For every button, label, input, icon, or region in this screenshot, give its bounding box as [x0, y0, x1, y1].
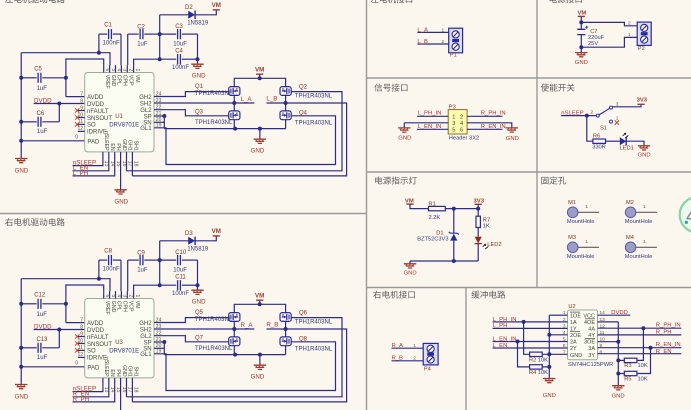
- svg-text:2: 2: [591, 110, 594, 116]
- transistor Q5 TPH1R403NL: [229, 313, 240, 322]
- net label L_A wire to P1 pin1: [417, 31, 448, 33]
- svg-text:C12: C12: [34, 292, 46, 298]
- section divider horizontal y=172: [367, 171, 691, 173]
- transistor Q1 TPH1R403NL: [229, 87, 240, 96]
- resistor R2 10K: [530, 352, 543, 356]
- ground left: [15, 159, 27, 163]
- ground power interface: [575, 53, 587, 57]
- svg-text:C11: C11: [175, 275, 186, 281]
- section divider horizontal y=213.5 (left column): [0, 213, 367, 215]
- wire U2 pin1 1OE to gnd rail: [560, 314, 568, 316]
- svg-text:MountHole: MountHole: [625, 254, 653, 260]
- wire gnd rail to R3: [618, 359, 624, 361]
- svg-text:DVDD: DVDD: [87, 102, 105, 108]
- diode D3 1N5819: [159, 241, 161, 285]
- svg-text:2A: 2A: [570, 340, 577, 346]
- wire R7 column: [477, 209, 479, 217]
- svg-text:PAD: PAD: [87, 366, 100, 372]
- wire switch pin3 to 3V3: [613, 104, 642, 107]
- svg-text:SNSOUT: SNSOUT: [87, 342, 112, 348]
- svg-text:TPH1R403NL: TPH1R403NL: [295, 319, 333, 325]
- svg-text:3OE: 3OE: [584, 340, 595, 346]
- svg-text:CPH: CPH: [122, 301, 128, 312]
- zener diode D1 BZT52C3V3: [449, 232, 459, 235]
- svg-text:4: 4: [116, 69, 122, 72]
- wire R4 to gnd rail: [542, 366, 549, 368]
- chip bottom pins nSLEEP EN PH GND GH1 SH1: [102, 378, 104, 386]
- wire top gnd rail to pin5: [21, 279, 110, 292]
- wire R7 to LED2: [477, 228, 479, 237]
- no-connect pins nFAULT SNSOUT SO: [78, 336, 85, 338]
- svg-text:GND: GND: [570, 353, 582, 359]
- svg-text:M1: M1: [568, 200, 576, 206]
- svg-text:GND: GND: [110, 75, 116, 87]
- svg-text:R_EN_IN: R_EN_IN: [481, 124, 506, 130]
- svg-text:GND: GND: [121, 139, 127, 151]
- wire LED1 to ground: [626, 141, 644, 146]
- LED LED2 red: [475, 237, 482, 244]
- svg-text:1uF: 1uF: [37, 355, 48, 361]
- svg-text:1: 1: [442, 27, 445, 33]
- wire VM to P2 pin2: [581, 22, 637, 25]
- svg-text:Q8: Q8: [299, 336, 308, 342]
- chip top pins VREF GND CPL CPH VCP VM: [103, 65, 105, 72]
- net label nSLEEP wire (enable switch): [561, 115, 596, 117]
- svg-text:Q2: Q2: [299, 84, 308, 90]
- diode D2 1N5819: [159, 15, 161, 59]
- svg-text:GL1: GL1: [140, 126, 152, 132]
- svg-text:MountHole: MountHole: [567, 219, 595, 225]
- svg-text:7: 7: [80, 91, 83, 97]
- ground U2 left: [543, 379, 555, 383]
- svg-text:R7: R7: [483, 217, 490, 223]
- svg-text:SH1: SH1: [133, 141, 139, 151]
- svg-text:Q6: Q6: [299, 310, 308, 316]
- svg-text:330R: 330R: [592, 145, 606, 151]
- svg-text:R5: R5: [624, 376, 631, 382]
- net label L_EN wire to U2 pin6: [493, 347, 568, 349]
- svg-text:DVDD: DVDD: [34, 98, 52, 105]
- svg-text:R_PH_IN: R_PH_IN: [481, 111, 506, 117]
- net label L_PH_IN wire to P3 pin1: [417, 115, 448, 117]
- svg-text:1uF: 1uF: [37, 312, 48, 318]
- svg-text:1: 1: [134, 69, 140, 72]
- svg-text:R4: R4: [529, 370, 536, 376]
- svg-text:SNSOUT: SNSOUT: [87, 116, 112, 122]
- no-connect switch pin1: [615, 120, 619, 124]
- wire GL1 to Q4 gate: [154, 116, 336, 165]
- svg-text:S1: S1: [600, 125, 607, 131]
- op-amp driver chip U1 DRV8701E body: [85, 73, 154, 152]
- svg-text:P3: P3: [449, 104, 456, 110]
- svg-text:DRV8701E: DRV8701E: [109, 349, 139, 355]
- svg-text:4: 4: [686, 206, 691, 228]
- svg-text:D3: D3: [185, 231, 193, 237]
- wire Q2-Q4 column: [285, 321, 287, 337]
- svg-text:nSLEEP: nSLEEP: [561, 111, 583, 117]
- svg-text:R_B: R_B: [266, 322, 278, 329]
- svg-text:U2: U2: [568, 304, 575, 310]
- svg-text:SO: SO: [87, 349, 96, 355]
- wire R1 to node: [445, 208, 478, 210]
- ground H-bridge: [259, 355, 261, 366]
- svg-text:DRV8701E: DRV8701E: [109, 123, 139, 129]
- svg-text:2: 2: [128, 69, 134, 72]
- wire H-bridge top rail: [234, 304, 285, 312]
- svg-text:10K: 10K: [538, 370, 548, 376]
- title enable switch: [541, 84, 549, 92]
- svg-text:nFAULT: nFAULT: [87, 109, 109, 115]
- svg-text:C13: C13: [37, 337, 49, 343]
- svg-text:TPH1R403NL: TPH1R403NL: [195, 91, 233, 97]
- net label L_PH_IN wire to U2 pin2: [493, 321, 568, 323]
- net label L_PH wire to U2 pin3: [493, 327, 568, 329]
- transistor Q8 TPH1R403NL: [280, 337, 291, 346]
- svg-text:U3: U3: [115, 340, 123, 346]
- svg-text:VM: VM: [212, 2, 221, 9]
- buffer chip U2 SN74HC125PWR body: [568, 310, 598, 360]
- connector P2 body: [637, 22, 651, 45]
- svg-text:TPH1R403NL: TPH1R403NL: [295, 120, 333, 126]
- svg-text:GND: GND: [15, 394, 29, 401]
- power port 3V3 (switch): [637, 103, 644, 105]
- svg-text:GND: GND: [251, 373, 265, 380]
- svg-text:4A: 4A: [588, 327, 595, 333]
- chip top pins VREF GND CPL CPH VCP VM: [103, 291, 105, 298]
- svg-text:U1: U1: [115, 114, 123, 120]
- svg-text:3: 3: [452, 121, 455, 127]
- svg-text:13: 13: [103, 161, 109, 167]
- svg-text:5: 5: [452, 128, 455, 134]
- wire GH2 to Q1 gate: [154, 92, 229, 97]
- svg-text:GND: GND: [612, 394, 625, 400]
- svg-text:GL2: GL2: [140, 334, 152, 340]
- mounting hole M3: [567, 242, 578, 253]
- svg-text:1: 1: [643, 204, 646, 210]
- svg-text:M3: M3: [568, 235, 576, 241]
- svg-text:4: 4: [116, 295, 122, 298]
- wire AVDD/VREF link: [66, 285, 104, 323]
- svg-text:1: 1: [134, 295, 140, 298]
- svg-text:6: 6: [104, 69, 110, 72]
- svg-text:VM: VM: [134, 75, 140, 83]
- svg-text:4: 4: [460, 121, 463, 127]
- svg-text:P1: P1: [450, 53, 457, 59]
- svg-text:GND: GND: [404, 271, 417, 277]
- capacitor C1: [98, 34, 100, 53]
- resistor R6 330R: [593, 139, 606, 143]
- wire left GND rail (U1 section): [20, 53, 22, 159]
- wire SH1 / L_B loop: [131, 159, 133, 176]
- svg-text:1: 1: [585, 239, 588, 245]
- svg-text:6: 6: [460, 128, 463, 134]
- node R_A: [232, 327, 236, 331]
- svg-text:GND: GND: [398, 135, 411, 141]
- svg-text:1A: 1A: [570, 320, 577, 326]
- wire Q1-Q3 column: [233, 95, 235, 111]
- svg-text:3Y: 3Y: [588, 353, 595, 359]
- transistor Q7 TPH1R403NL: [229, 337, 240, 346]
- wire U2 pin4 2OE to gnd rail: [549, 334, 567, 336]
- svg-text:C10: C10: [175, 250, 187, 256]
- svg-text:VM: VM: [255, 67, 264, 74]
- wire SP/SN sense: [154, 121, 164, 123]
- wire U2 pin10 3OE to right gnd rail: [598, 341, 619, 343]
- svg-text:10K: 10K: [638, 376, 648, 382]
- svg-text:MountHole: MountHole: [567, 254, 595, 260]
- svg-text:P2: P2: [638, 46, 645, 52]
- svg-text:SP: SP: [144, 114, 152, 120]
- ground enable switch: [638, 146, 650, 150]
- wire R3 to R_PH_IN branch: [637, 328, 644, 360]
- svg-text:GH2: GH2: [139, 321, 152, 327]
- capacitor C11: [134, 285, 177, 291]
- svg-text:GH2: GH2: [139, 95, 152, 101]
- svg-text:SO: SO: [87, 123, 96, 129]
- net label R_EN_IN wire from P3 pin6: [467, 128, 502, 130]
- svg-text:2.2K: 2.2K: [429, 215, 441, 221]
- svg-text:Q1: Q1: [195, 84, 204, 90]
- chip bottom pins nSLEEP EN PH GND GH1 SH1: [102, 152, 104, 160]
- capacitor C8: [98, 260, 100, 279]
- title buffer circuit: [471, 291, 479, 299]
- svg-text:Q7: Q7: [195, 335, 204, 341]
- svg-text:R_EN: R_EN: [656, 349, 672, 355]
- svg-text:L_PH: L_PH: [493, 323, 508, 329]
- wire D1 to bottom rail: [453, 241, 455, 261]
- svg-text:1: 1: [643, 239, 646, 245]
- overlay badge circle with 4: [680, 197, 691, 233]
- title left motor interface (clipped at top): [371, 0, 379, 3]
- capacitor C7 220uF 25V polarized: [577, 29, 585, 34]
- node L_B: [284, 101, 288, 105]
- svg-text:R6: R6: [593, 133, 600, 139]
- svg-text:8: 8: [80, 324, 83, 330]
- capacitor C9: [128, 259, 139, 261]
- svg-text:2: 2: [628, 20, 631, 26]
- power port VM (diode): [213, 235, 220, 237]
- title power indicator: [375, 176, 382, 184]
- svg-text:GL2: GL2: [140, 108, 152, 114]
- svg-text:SH2: SH2: [140, 327, 152, 333]
- svg-text:R_EN_IN: R_EN_IN: [656, 342, 681, 348]
- svg-text:VCP: VCP: [128, 301, 134, 312]
- svg-text:MountHole: MountHole: [625, 219, 653, 225]
- svg-text:R_PH: R_PH: [656, 330, 672, 336]
- wire DVDD branch to C6: [58, 330, 60, 348]
- wire L_PH_IN branch to R2: [524, 322, 530, 354]
- mounting hole M2: [625, 207, 636, 218]
- svg-text:VCP: VCP: [128, 75, 134, 86]
- ground H-bridge: [259, 129, 261, 140]
- net label L_EN + wire: [73, 159, 109, 170]
- title right motor drive circuit: [5, 218, 13, 226]
- svg-text:EN: EN: [109, 369, 115, 376]
- mounting hole M1: [567, 207, 578, 218]
- resistor R4 10K: [530, 365, 543, 369]
- wire bridge bottom rail: [164, 354, 285, 356]
- net label DVDD + wire: [34, 329, 85, 331]
- svg-text:CPL: CPL: [116, 75, 122, 85]
- switch S1 SPDT: [596, 114, 599, 117]
- svg-text:10uF: 10uF: [173, 42, 187, 48]
- svg-text:7: 7: [80, 317, 83, 323]
- wire GL1 to Q4 gate: [154, 342, 336, 391]
- svg-text:AVDD: AVDD: [87, 321, 104, 327]
- net label R_EN_IN wire from U2 pin9: [598, 347, 682, 349]
- svg-text:M2: M2: [626, 200, 634, 206]
- svg-text:DVDD: DVDD: [611, 310, 628, 316]
- section divider horizontal y=287.5: [367, 287, 691, 289]
- svg-text:GND: GND: [192, 299, 206, 306]
- section divider vertical x=366.5: [366, 0, 368, 410]
- svg-text:L_PH_IN: L_PH_IN: [418, 111, 442, 117]
- svg-text:5: 5: [110, 295, 116, 298]
- svg-text:VM: VM: [212, 228, 221, 235]
- svg-text:2: 2: [413, 355, 416, 361]
- power port 3V3 (indicator): [475, 203, 482, 205]
- svg-text:PH: PH: [115, 369, 121, 376]
- wire SH2 / L_A: [154, 328, 254, 330]
- svg-text:C5: C5: [34, 66, 42, 72]
- svg-text:TPH1R403NL: TPH1R403NL: [195, 346, 233, 352]
- svg-text:100nF: 100nF: [172, 291, 189, 297]
- svg-text:PAD: PAD: [87, 140, 100, 146]
- svg-text:R_PH_IN: R_PH_IN: [656, 323, 681, 329]
- capacitor C10: [157, 259, 176, 261]
- svg-text:2: 2: [128, 295, 134, 298]
- ground chip GND pin: [120, 385, 122, 410]
- section divider horizontal y=78: [367, 77, 691, 79]
- svg-text:C8: C8: [104, 249, 112, 255]
- wire AVDD row: [66, 322, 85, 324]
- no-connect pins nFAULT SNSOUT SO: [78, 110, 85, 112]
- svg-text:18: 18: [133, 387, 139, 393]
- svg-text:13: 13: [103, 387, 109, 393]
- title mounting holes: [541, 177, 548, 185]
- capacitor C3: [157, 33, 176, 35]
- wire bridge bottom rail: [164, 128, 285, 130]
- svg-text:10uF: 10uF: [173, 268, 187, 274]
- svg-text:2: 2: [460, 115, 463, 121]
- svg-text:GH1: GH1: [127, 140, 133, 151]
- ground U2 right: [612, 386, 624, 390]
- capacitor C13: [21, 347, 37, 349]
- net label nSLEEP + wire: [73, 159, 103, 165]
- svg-text:DVDD: DVDD: [87, 328, 105, 334]
- svg-text:1N5819: 1N5819: [187, 247, 209, 253]
- wire SH2 / L_A: [154, 102, 254, 104]
- transistor Q6 TPH1R403NL: [280, 313, 291, 322]
- svg-text:L_PH: L_PH: [73, 170, 88, 177]
- svg-text:L_B: L_B: [266, 96, 277, 103]
- svg-text:CPL: CPL: [116, 301, 122, 311]
- net label R_A wire to P4 pin1: [392, 347, 424, 349]
- wire nSLEEP branch to R6: [587, 116, 593, 142]
- net label R_PH_IN wire from U2 pin12: [598, 327, 682, 329]
- wire R5 to R_EN_IN branch: [637, 348, 651, 374]
- wire indicator bottom rail: [410, 260, 478, 262]
- svg-text:Q3: Q3: [195, 109, 204, 115]
- svg-text:nSLEEP: nSLEEP: [103, 131, 109, 151]
- wire AVDD row: [66, 96, 85, 98]
- svg-text:TPH1R403NL: TPH1R403NL: [195, 120, 233, 126]
- svg-text:TPH1R403NL: TPH1R403NL: [295, 346, 333, 352]
- wire Q2-Q4 column: [285, 95, 287, 111]
- svg-text:VREF: VREF: [104, 301, 110, 315]
- net label R_EN + wire: [73, 385, 109, 396]
- capacitor C6: [21, 121, 37, 123]
- svg-text:BZT52C3V3: BZT52C3V3: [417, 237, 448, 243]
- svg-text:5: 5: [110, 69, 116, 72]
- svg-text:1uF: 1uF: [137, 41, 148, 47]
- capacitor C4: [134, 59, 177, 65]
- wire node to D1: [453, 209, 455, 233]
- resistor R3 10K: [624, 358, 637, 362]
- svg-text:GND: GND: [506, 136, 519, 142]
- svg-text:1OE: 1OE: [570, 313, 581, 319]
- svg-text:L_B: L_B: [417, 39, 428, 45]
- header P3 Header 3X2 body: [448, 110, 467, 134]
- svg-text:25V: 25V: [588, 41, 598, 47]
- svg-text:LED2: LED2: [487, 242, 501, 248]
- svg-text:L_A: L_A: [417, 27, 428, 33]
- svg-text:1: 1: [628, 32, 631, 38]
- svg-text:Q5: Q5: [195, 310, 204, 316]
- svg-text:R1: R1: [429, 201, 436, 207]
- svg-text:100nF: 100nF: [103, 266, 120, 272]
- wire U2 pin13 4OE to right gnd rail: [598, 321, 619, 323]
- svg-text:PH: PH: [115, 143, 121, 150]
- net label L_EN_IN wire to P3 pin5: [417, 128, 448, 130]
- svg-text:TPH1R403NL: TPH1R403NL: [295, 93, 333, 99]
- wire L_EN_IN branch to R4: [518, 342, 530, 367]
- svg-text:100nF: 100nF: [103, 40, 120, 46]
- svg-text:L_EN_IN: L_EN_IN: [493, 336, 517, 342]
- svg-text:2: 2: [442, 39, 445, 45]
- ground right of P3 wire from pin4: [467, 123, 512, 128]
- net label R_B wire to P4 pin2: [392, 360, 424, 362]
- svg-text:C9: C9: [137, 251, 145, 257]
- svg-text:GND: GND: [543, 393, 556, 399]
- ground chip GND pin: [120, 159, 122, 189]
- svg-text:C4: C4: [175, 49, 183, 55]
- svg-text:1: 1: [413, 343, 416, 349]
- wire top gnd rail to pin5: [21, 53, 110, 65]
- svg-text:DVDD: DVDD: [34, 324, 52, 331]
- svg-text:TPH1R403NL: TPH1R403NL: [195, 317, 233, 323]
- svg-text:1uF: 1uF: [37, 86, 48, 92]
- wire gnd rail to R5: [618, 373, 624, 375]
- svg-text:Header 3X2: Header 3X2: [449, 136, 479, 142]
- net label R_PH_IN wire from P3 pin2: [467, 115, 502, 117]
- wire SH1 / L_B loop: [131, 385, 133, 402]
- title power interface (clipped at top): [550, 0, 557, 3]
- net label R_EN wire from U2 pin8: [598, 353, 682, 355]
- svg-text:1: 1: [585, 204, 588, 210]
- svg-text:2OE: 2OE: [570, 333, 581, 339]
- svg-text:SN74HC125PWR: SN74HC125PWR: [568, 362, 613, 368]
- capacitor C12: [21, 303, 37, 305]
- svg-text:3A: 3A: [588, 346, 595, 352]
- svg-text:SH1: SH1: [133, 367, 139, 377]
- svg-text:6: 6: [104, 295, 110, 298]
- svg-text:Q4: Q4: [299, 110, 308, 116]
- net label DVDD wire from U2 pin14 VCC: [598, 314, 631, 316]
- svg-text:C6: C6: [37, 111, 45, 117]
- wire GH1 to Q2 gate: [126, 385, 128, 396]
- resistor R7 1K: [476, 216, 480, 227]
